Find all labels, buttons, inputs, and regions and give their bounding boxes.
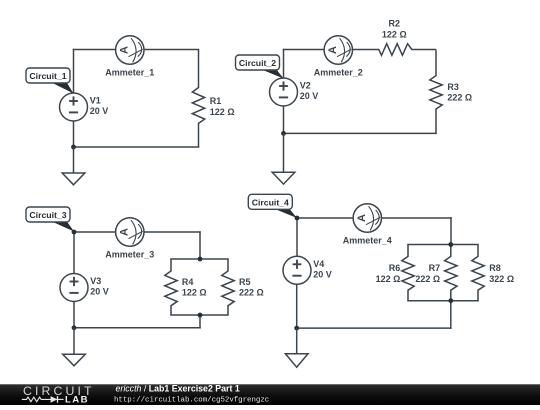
wire C1 top-left rail [74, 49, 116, 51]
svg-text:R3: R3 [447, 82, 459, 92]
svg-text:R2: R2 [389, 19, 401, 29]
svg-text:A: A [356, 214, 368, 222]
svg-text:ericcth / Lab1 Exercise2 Part: ericcth / Lab1 Exercise2 Part 1 [116, 383, 240, 393]
ground C2 [272, 133, 295, 184]
wire C2 bottom rail [284, 132, 437, 134]
footer bar [0, 384, 540, 405]
svg-text:322 Ω: 322 Ω [489, 274, 514, 284]
wire C4 parallel bottom bus [408, 300, 478, 302]
ammeter Ammeter_2 [314, 36, 363, 78]
voltage source V1 20 V [60, 93, 109, 121]
wire C2 left lower [283, 106, 285, 133]
svg-text:R1: R1 [210, 96, 222, 106]
node C4 top bus junction [448, 242, 453, 247]
svg-text:V1: V1 [90, 96, 101, 106]
wire C2 top-left rail [284, 49, 325, 51]
ammeter Ammeter_3 [105, 218, 154, 260]
wire C3 drop to bottom rail [199, 315, 201, 328]
voltage source V2 20 V [270, 78, 319, 106]
wire C4 bottom rail [297, 327, 451, 329]
resistor R5 222 ohm [222, 259, 264, 315]
wire C4 parallel top bus [408, 244, 478, 246]
svg-text:http://circuitlab.com/cg52vfgr: http://circuitlab.com/cg52vfgrengzc [114, 397, 269, 405]
wire C3 left lower [73, 302, 75, 328]
svg-text:Circuit_1: Circuit_1 [29, 71, 66, 81]
svg-text:122 Ω: 122 Ω [210, 107, 235, 117]
svg-text:Ammeter_4: Ammeter_4 [343, 235, 392, 245]
wire C4 top-right rail [382, 217, 452, 219]
svg-text:LAB: LAB [65, 395, 89, 405]
wire C3 top-right rail [144, 231, 200, 233]
node C4 ground junction [294, 326, 299, 331]
svg-text:20 V: 20 V [313, 270, 332, 280]
resistor R8 322 ohm [472, 245, 514, 301]
ground C1 [62, 147, 85, 185]
wire C1 top-right rail [144, 49, 199, 51]
svg-text:Ammeter_3: Ammeter_3 [105, 249, 154, 259]
wire C3 top-left rail [74, 231, 116, 233]
node C3 label junction [72, 230, 77, 235]
svg-text:20 V: 20 V [300, 91, 319, 101]
resistor R7 222 ohm [415, 245, 457, 301]
svg-text:222 Ω: 222 Ω [447, 93, 472, 103]
wire C4 drop to bottom rail [450, 301, 452, 328]
resistor R6 122 ohm [376, 245, 415, 301]
wire C2 left upper [283, 50, 285, 79]
svg-text:Circuit_4: Circuit_4 [252, 198, 289, 208]
wire C3 bottom rail [74, 327, 200, 329]
resistor R4 122 ohm [165, 259, 207, 315]
wire C3 parallel top bus [171, 258, 228, 260]
svg-text:222 Ω: 222 Ω [415, 274, 440, 284]
svg-text:A: A [118, 46, 130, 54]
resistor R3 222 ohm [430, 50, 472, 134]
node C3 top bus junction [198, 257, 203, 262]
wire C4 top-left rail [297, 217, 353, 219]
ground C3 [63, 328, 86, 366]
node C1 ground junction [71, 145, 76, 150]
node C4 label junction [295, 216, 300, 221]
svg-text:R8: R8 [489, 263, 501, 273]
ammeter Ammeter_1 [105, 36, 154, 78]
wire C1 left upper [73, 50, 75, 94]
net label Circuit_3 [26, 207, 74, 232]
wire C4 left upper [296, 218, 298, 256]
svg-text:122 Ω: 122 Ω [182, 288, 207, 298]
svg-text:222 Ω: 222 Ω [239, 288, 264, 298]
wire C3 parallel bottom bus [171, 314, 228, 316]
wire C1 bottom rail [74, 146, 199, 148]
node C3 bottom bus junction [198, 313, 203, 318]
svg-text:Circuit_3: Circuit_3 [29, 210, 66, 220]
svg-text:R5: R5 [239, 277, 251, 287]
wire C4 left lower [296, 284, 298, 328]
svg-text:V2: V2 [300, 81, 311, 91]
wire C3 feed down [199, 232, 201, 259]
resistor R2 122 ohm [379, 19, 436, 56]
wire C4 feed down [450, 218, 452, 245]
svg-text:A: A [118, 228, 130, 236]
net label Circuit_4 [248, 194, 297, 218]
svg-text:Ammeter_1: Ammeter_1 [105, 67, 154, 77]
node C2 ground junction [281, 131, 286, 136]
svg-text:122 Ω: 122 Ω [382, 30, 407, 40]
net label Circuit_1 [26, 68, 74, 94]
wire C2 top-middle rail [353, 49, 379, 51]
svg-text:V3: V3 [90, 276, 101, 286]
svg-text:Ammeter_2: Ammeter_2 [314, 67, 363, 77]
wire C1 left lower [73, 121, 75, 147]
ammeter Ammeter_4 [343, 204, 392, 246]
svg-text:20 V: 20 V [90, 106, 109, 116]
svg-text:R7: R7 [429, 263, 441, 273]
voltage source V4 20 V [283, 256, 332, 284]
svg-text:A: A [327, 46, 339, 54]
node C3 ground junction [72, 325, 77, 330]
wire C3 left upper [73, 232, 75, 274]
svg-text:R6: R6 [389, 263, 401, 273]
logo schematic wire resistor diode [22, 397, 64, 402]
svg-text:R4: R4 [182, 277, 194, 287]
svg-text:V4: V4 [313, 259, 324, 269]
ground C4 [285, 328, 308, 367]
net label Circuit_2 [236, 55, 284, 79]
resistor R1 122 ohm [192, 50, 234, 148]
node C4 bottom bus junction [448, 298, 453, 303]
svg-text:122 Ω: 122 Ω [376, 274, 401, 284]
svg-text:Circuit_2: Circuit_2 [239, 58, 276, 68]
svg-text:20 V: 20 V [90, 287, 109, 297]
voltage source V3 20 V [60, 274, 109, 302]
